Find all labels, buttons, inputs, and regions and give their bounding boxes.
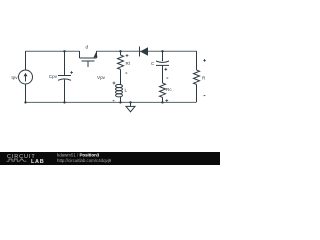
wire C to Rc bbox=[162, 65, 164, 83]
plus mark Cpv bbox=[70, 71, 73, 74]
svg-text:L: L bbox=[125, 88, 128, 93]
wire top rail left segment bbox=[26, 50, 80, 52]
wire left branch lower bbox=[25, 84, 27, 102]
node dot top C bbox=[161, 50, 163, 52]
diode cathode bar bbox=[139, 47, 141, 57]
nmos transistor d bbox=[80, 51, 98, 67]
node dot bottom L bbox=[119, 101, 121, 103]
plus mark Rl top bbox=[126, 54, 129, 57]
wire L to bottom rail bbox=[120, 97, 122, 102]
minus mark Rl bottom bbox=[126, 72, 128, 75]
wire left branch upper bbox=[25, 51, 27, 70]
minus mark R bottom bbox=[204, 94, 206, 97]
capacitor C bbox=[156, 61, 169, 65]
node dot top Cpv bbox=[63, 50, 65, 52]
wire Cpv branch lower bbox=[64, 80, 66, 103]
wire C branch lead bbox=[162, 51, 164, 61]
resistor R bbox=[194, 70, 200, 84]
wire top rail middle segment bbox=[97, 50, 140, 52]
current source Ipv bbox=[19, 70, 33, 84]
resistor Rc bbox=[160, 83, 166, 97]
wire Rl to L bbox=[120, 69, 122, 84]
svg-text:d: d bbox=[86, 45, 89, 50]
node dot top Rl bbox=[119, 50, 121, 52]
svg-text:Vpv: Vpv bbox=[97, 75, 106, 80]
node dot ground bbox=[129, 101, 131, 103]
svg-text:Cpv: Cpv bbox=[49, 74, 58, 79]
minus mark Rc top bbox=[167, 77, 169, 80]
wire Cpv branch upper bbox=[64, 51, 66, 75]
plus mark R top bbox=[203, 59, 206, 62]
inductor L bbox=[116, 84, 123, 97]
wire top rail right segment bbox=[140, 50, 197, 52]
node dot bottom Rc bbox=[161, 101, 163, 103]
circuitlab logo bbox=[7, 154, 45, 165]
svg-text:Rl: Rl bbox=[126, 61, 130, 66]
node dot bottom Cpv bbox=[63, 101, 65, 103]
svg-text:Ipv: Ipv bbox=[11, 75, 18, 80]
wire right branch lower bbox=[196, 84, 198, 102]
wire Rc to bottom rail bbox=[162, 97, 164, 102]
svg-text:Rc: Rc bbox=[166, 87, 172, 92]
plus mark C bbox=[164, 68, 167, 71]
svg-text:kdawm51 / Position3: kdawm51 / Position3 bbox=[57, 153, 100, 158]
wire Rl branch lead bbox=[120, 51, 122, 55]
svg-text:http://circuitlab.com/c4dqvj9: http://circuitlab.com/c4dqvj9 bbox=[57, 158, 112, 163]
plus mark Rc bottom bbox=[165, 99, 168, 102]
ground bbox=[126, 102, 135, 111]
resistor Rl bbox=[118, 55, 124, 69]
capacitor Cpv bbox=[58, 76, 71, 81]
node dot bottom left corner bbox=[24, 101, 26, 103]
wire bottom rail bbox=[26, 101, 197, 103]
minus mark L bottom bbox=[113, 99, 115, 102]
diode bbox=[140, 47, 148, 56]
plus mark L top bbox=[113, 82, 116, 85]
wire right branch upper bbox=[196, 51, 198, 70]
footer bar bbox=[0, 152, 220, 165]
svg-text:LAB: LAB bbox=[31, 159, 44, 165]
